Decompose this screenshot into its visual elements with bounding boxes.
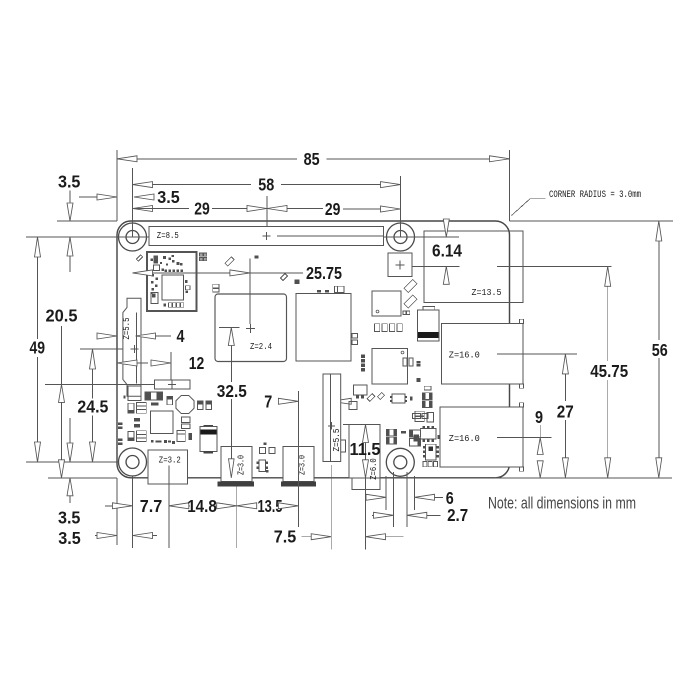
svg-text:Z=8.5: Z=8.5 [157, 231, 179, 241]
dimension 24.5 [92, 349, 94, 399]
small parts between HDMI connectors [259, 447, 265, 453]
svg-text:2.7: 2.7 [447, 505, 468, 525]
small ICs near audio jack [367, 394, 375, 402]
mounting hole bottom-right [386, 448, 414, 476]
SoC BCM2711 Z=2.4 [215, 294, 287, 362]
HDMI0 centerline ext [236, 487, 238, 549]
svg-text:85: 85 [304, 149, 320, 169]
svg-text:Z=13.5: Z=13.5 [472, 287, 502, 298]
dimension 6.14 [443, 219, 449, 237]
dimension 13.5 [237, 503, 257, 509]
ext left hole bottom [132, 476, 134, 548]
CSI camera connector Z=5.5 [323, 374, 341, 462]
ethernet centerline left [412, 265, 459, 267]
dimension 4 (DSI offset) [99, 335, 117, 337]
dimension 49 (hole to hole vertical) [37, 237, 39, 339]
svg-text:27: 27 [557, 401, 574, 421]
ethernet connector Z=13.5 [424, 231, 523, 303]
svg-text:3.5: 3.5 [58, 171, 81, 191]
PMIC square [151, 411, 174, 434]
svg-text:Z=2.4: Z=2.4 [250, 342, 272, 352]
svg-text:Z=3.0: Z=3.0 [237, 455, 247, 475]
HDMI1 centerline ext [297, 487, 299, 528]
ext line left hole centerline vertical [132, 168, 134, 237]
dimension 7 [277, 400, 279, 402]
dimension 85 top [117, 158, 297, 160]
dimension 32.5 (soc center to bottom) [219, 327, 240, 329]
svg-text:3.5: 3.5 [58, 528, 81, 548]
mounting hole bottom-left [119, 448, 147, 476]
svg-text:14.8: 14.8 [187, 496, 217, 516]
svg-text:49: 49 [30, 338, 46, 358]
ext line right hole centerline vertical [400, 176, 402, 237]
LPDDR4 RAM chip [296, 294, 351, 362]
fan connector centerline ref [45, 383, 154, 385]
dimension 6 (keepout dia) [365, 496, 368, 498]
parts right of audio jack [386, 429, 396, 436]
dimension 11.5 (audio top / csi ref) [343, 424, 349, 426]
dimension 7.7 [105, 505, 112, 507]
fan header component [354, 385, 368, 395]
CSI centerline ext below [330, 465, 332, 550]
bottom edge extension to right [495, 477, 672, 479]
micro HDMI0 connector Z=3.0 [221, 447, 252, 482]
USB3 controller chip [372, 291, 401, 316]
corner radius leader note [530, 198, 546, 200]
PCB board outline 85x56mm [117, 221, 510, 478]
pads right of wifi module [200, 253, 203, 256]
SoC centerline vertical [249, 259, 251, 325]
mounting hole top-right [387, 223, 415, 251]
hole keepout ext lines [385, 476, 387, 510]
svg-text:Z=16.0: Z=16.0 [449, 433, 480, 444]
svg-text:4: 4 [177, 326, 185, 346]
svg-text:Z=3.0: Z=3.0 [298, 455, 308, 475]
dimension 25.75 (soc center from hole) [133, 272, 231, 274]
ethernet centerline right [497, 265, 612, 267]
svg-text:32.5: 32.5 [217, 381, 247, 401]
svg-text:7.5: 7.5 [274, 526, 297, 546]
caps pair right of crystal [198, 401, 203, 409]
svg-text:Z=6.0: Z=6.0 [369, 458, 379, 480]
dimension 3.5 bottom vertical [69, 418, 71, 444]
dimension 56 [656, 221, 662, 241]
svg-text:58: 58 [258, 175, 274, 195]
svg-text:56: 56 [652, 340, 668, 360]
dimension 29 right [267, 206, 287, 212]
USB-C centerline through connector [168, 466, 170, 485]
DSI centerline ref [80, 348, 123, 350]
small parts left of USB2 [416, 361, 420, 363]
mounting hole top-left [119, 223, 147, 251]
dimension 58 [133, 184, 252, 186]
PoE header with + [388, 253, 412, 277]
svg-text:29: 29 [194, 199, 210, 219]
svg-text:Z=3.2: Z=3.2 [159, 454, 181, 465]
fan/PoE small connector with + [154, 380, 190, 389]
bottom hole centerline ref left [26, 461, 119, 463]
svg-text:7.7: 7.7 [140, 496, 163, 516]
electrolytic capacitor left [204, 425, 213, 429]
svg-text:3.5: 3.5 [157, 187, 180, 207]
diagonal passives near ethernet [404, 279, 417, 292]
audio jack Z=6.0 [349, 425, 380, 478]
dimension 3.5 top horizontal [79, 196, 97, 198]
USB2 double stack connector Z=16.0 [520, 403, 524, 407]
ethernet/PMIC chip [372, 349, 408, 385]
HDMI1 centerline upper [297, 391, 299, 447]
svg-text:25.75: 25.75 [306, 263, 342, 283]
ext left edge bottom [116, 478, 118, 545]
svg-text:Note: all dimensions in mm: Note: all dimensions in mm [488, 495, 636, 513]
svg-text:20.5: 20.5 [46, 306, 78, 326]
top edge extension to right [510, 220, 674, 222]
svg-text:6.14: 6.14 [432, 240, 462, 260]
svg-text:12: 12 [189, 353, 205, 373]
crystal octagon [176, 395, 194, 413]
svg-text:24.5: 24.5 [77, 397, 108, 417]
dim 32.5 arrow over HDMI0 [230, 447, 232, 460]
DSI display connector Z=5.5 [123, 298, 141, 396]
ext line header center [266, 196, 268, 227]
dimension 45.75 [605, 266, 611, 286]
USB3 double stack connector Z=16.0 [520, 319, 524, 323]
USB-C power connector Z=3.2 [148, 450, 188, 484]
svg-text:Z=5.5: Z=5.5 [332, 429, 342, 452]
electrolytic capacitor near ethernet [423, 307, 435, 311]
svg-text:9: 9 [535, 407, 543, 427]
svg-text:CORNER RADIUS = 3.0mm: CORNER RADIUS = 3.0mm [549, 190, 641, 201]
svg-text:Z=5.5: Z=5.5 [122, 318, 132, 340]
small parts between header and chips [225, 257, 234, 266]
GPIO header connector Z=8.5 [149, 227, 384, 246]
dimension 12 (fan connector x) [117, 360, 137, 366]
USB2 centerline [497, 437, 551, 439]
USB3 centerline [497, 353, 577, 355]
WiFi module shield [147, 252, 197, 311]
hole centerline horizontal right [380, 236, 459, 238]
dimension 2.7 (hole dia) [372, 514, 374, 516]
svg-text:3.5: 3.5 [58, 508, 81, 528]
HDMI1 centerline through connector [297, 447, 299, 487]
svg-text:Z=16.0: Z=16.0 [449, 349, 480, 360]
hole centerline horizontal left [26, 236, 163, 238]
dimension 27 [562, 354, 568, 374]
ext line right edge top [509, 150, 511, 221]
components cluster bottom-left [128, 386, 141, 401]
svg-text:29: 29 [325, 199, 341, 219]
svg-text:45.75: 45.75 [590, 361, 628, 381]
USB-C centerline ext [168, 484, 170, 548]
micro HDMI1 connector Z=3.0 [283, 447, 314, 482]
ext line left edge top [116, 150, 118, 221]
dimension 29 left [133, 206, 153, 212]
SOIC ICs left of USB2 [420, 429, 436, 440]
audio centerline ext below [365, 478, 367, 550]
bottom edge extension left [48, 477, 117, 479]
svg-text:11.5: 11.5 [350, 439, 381, 459]
svg-text:7: 7 [264, 391, 272, 411]
top edge extension left [57, 220, 117, 222]
